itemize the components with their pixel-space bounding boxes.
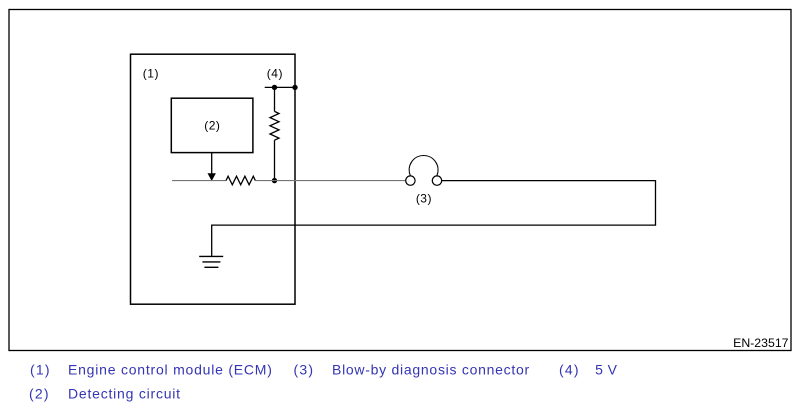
svg-text:(1): (1) xyxy=(143,67,159,81)
arrowhead into main wire xyxy=(208,173,216,181)
svg-text:(4): (4) xyxy=(267,67,283,81)
node: junction dot at resistor top xyxy=(272,85,277,90)
node: junction dot on ECM edge (5V) xyxy=(292,85,297,90)
svg-text:5 V: 5 V xyxy=(595,362,618,378)
node: junction dot on main wire xyxy=(272,178,277,183)
svg-text:(3): (3) xyxy=(294,362,315,378)
svg-text:(2): (2) xyxy=(204,119,220,133)
resistor (vertical, pull-up from 5V) xyxy=(270,111,279,140)
wire: main signal (gray) left segment xyxy=(172,180,226,182)
connector (3): left terminal circle xyxy=(406,176,415,185)
ECM box (1) xyxy=(131,54,296,304)
ground symbol xyxy=(199,256,223,267)
connector (3): right terminal circle xyxy=(432,176,441,185)
wire: return loop from connector to ground xyxy=(212,181,656,257)
connector (3): bridging arc xyxy=(409,156,438,176)
svg-text:Engine control module (ECM): Engine control module (ECM) xyxy=(68,362,273,378)
svg-text:Blow-by diagnosis connector: Blow-by diagnosis connector xyxy=(332,362,530,378)
wire: resistor upper lead xyxy=(274,87,276,111)
wire: main signal (gray) right segment to connector xyxy=(255,180,405,182)
svg-text:EN-23517: EN-23517 xyxy=(733,336,789,350)
svg-text:(1): (1) xyxy=(30,362,51,378)
svg-text:(3): (3) xyxy=(416,191,432,205)
wire: from detecting circuit down to main wire xyxy=(211,153,213,175)
wire: 5V stub at node (4) xyxy=(265,86,295,88)
svg-text:(2): (2) xyxy=(29,386,50,402)
resistor (horizontal, in-line) xyxy=(226,176,255,185)
svg-text:(4): (4) xyxy=(559,362,580,378)
svg-text:Detecting circuit: Detecting circuit xyxy=(68,386,181,402)
detecting circuit box (2) xyxy=(171,98,253,152)
wire: resistor lower lead xyxy=(274,140,276,180)
